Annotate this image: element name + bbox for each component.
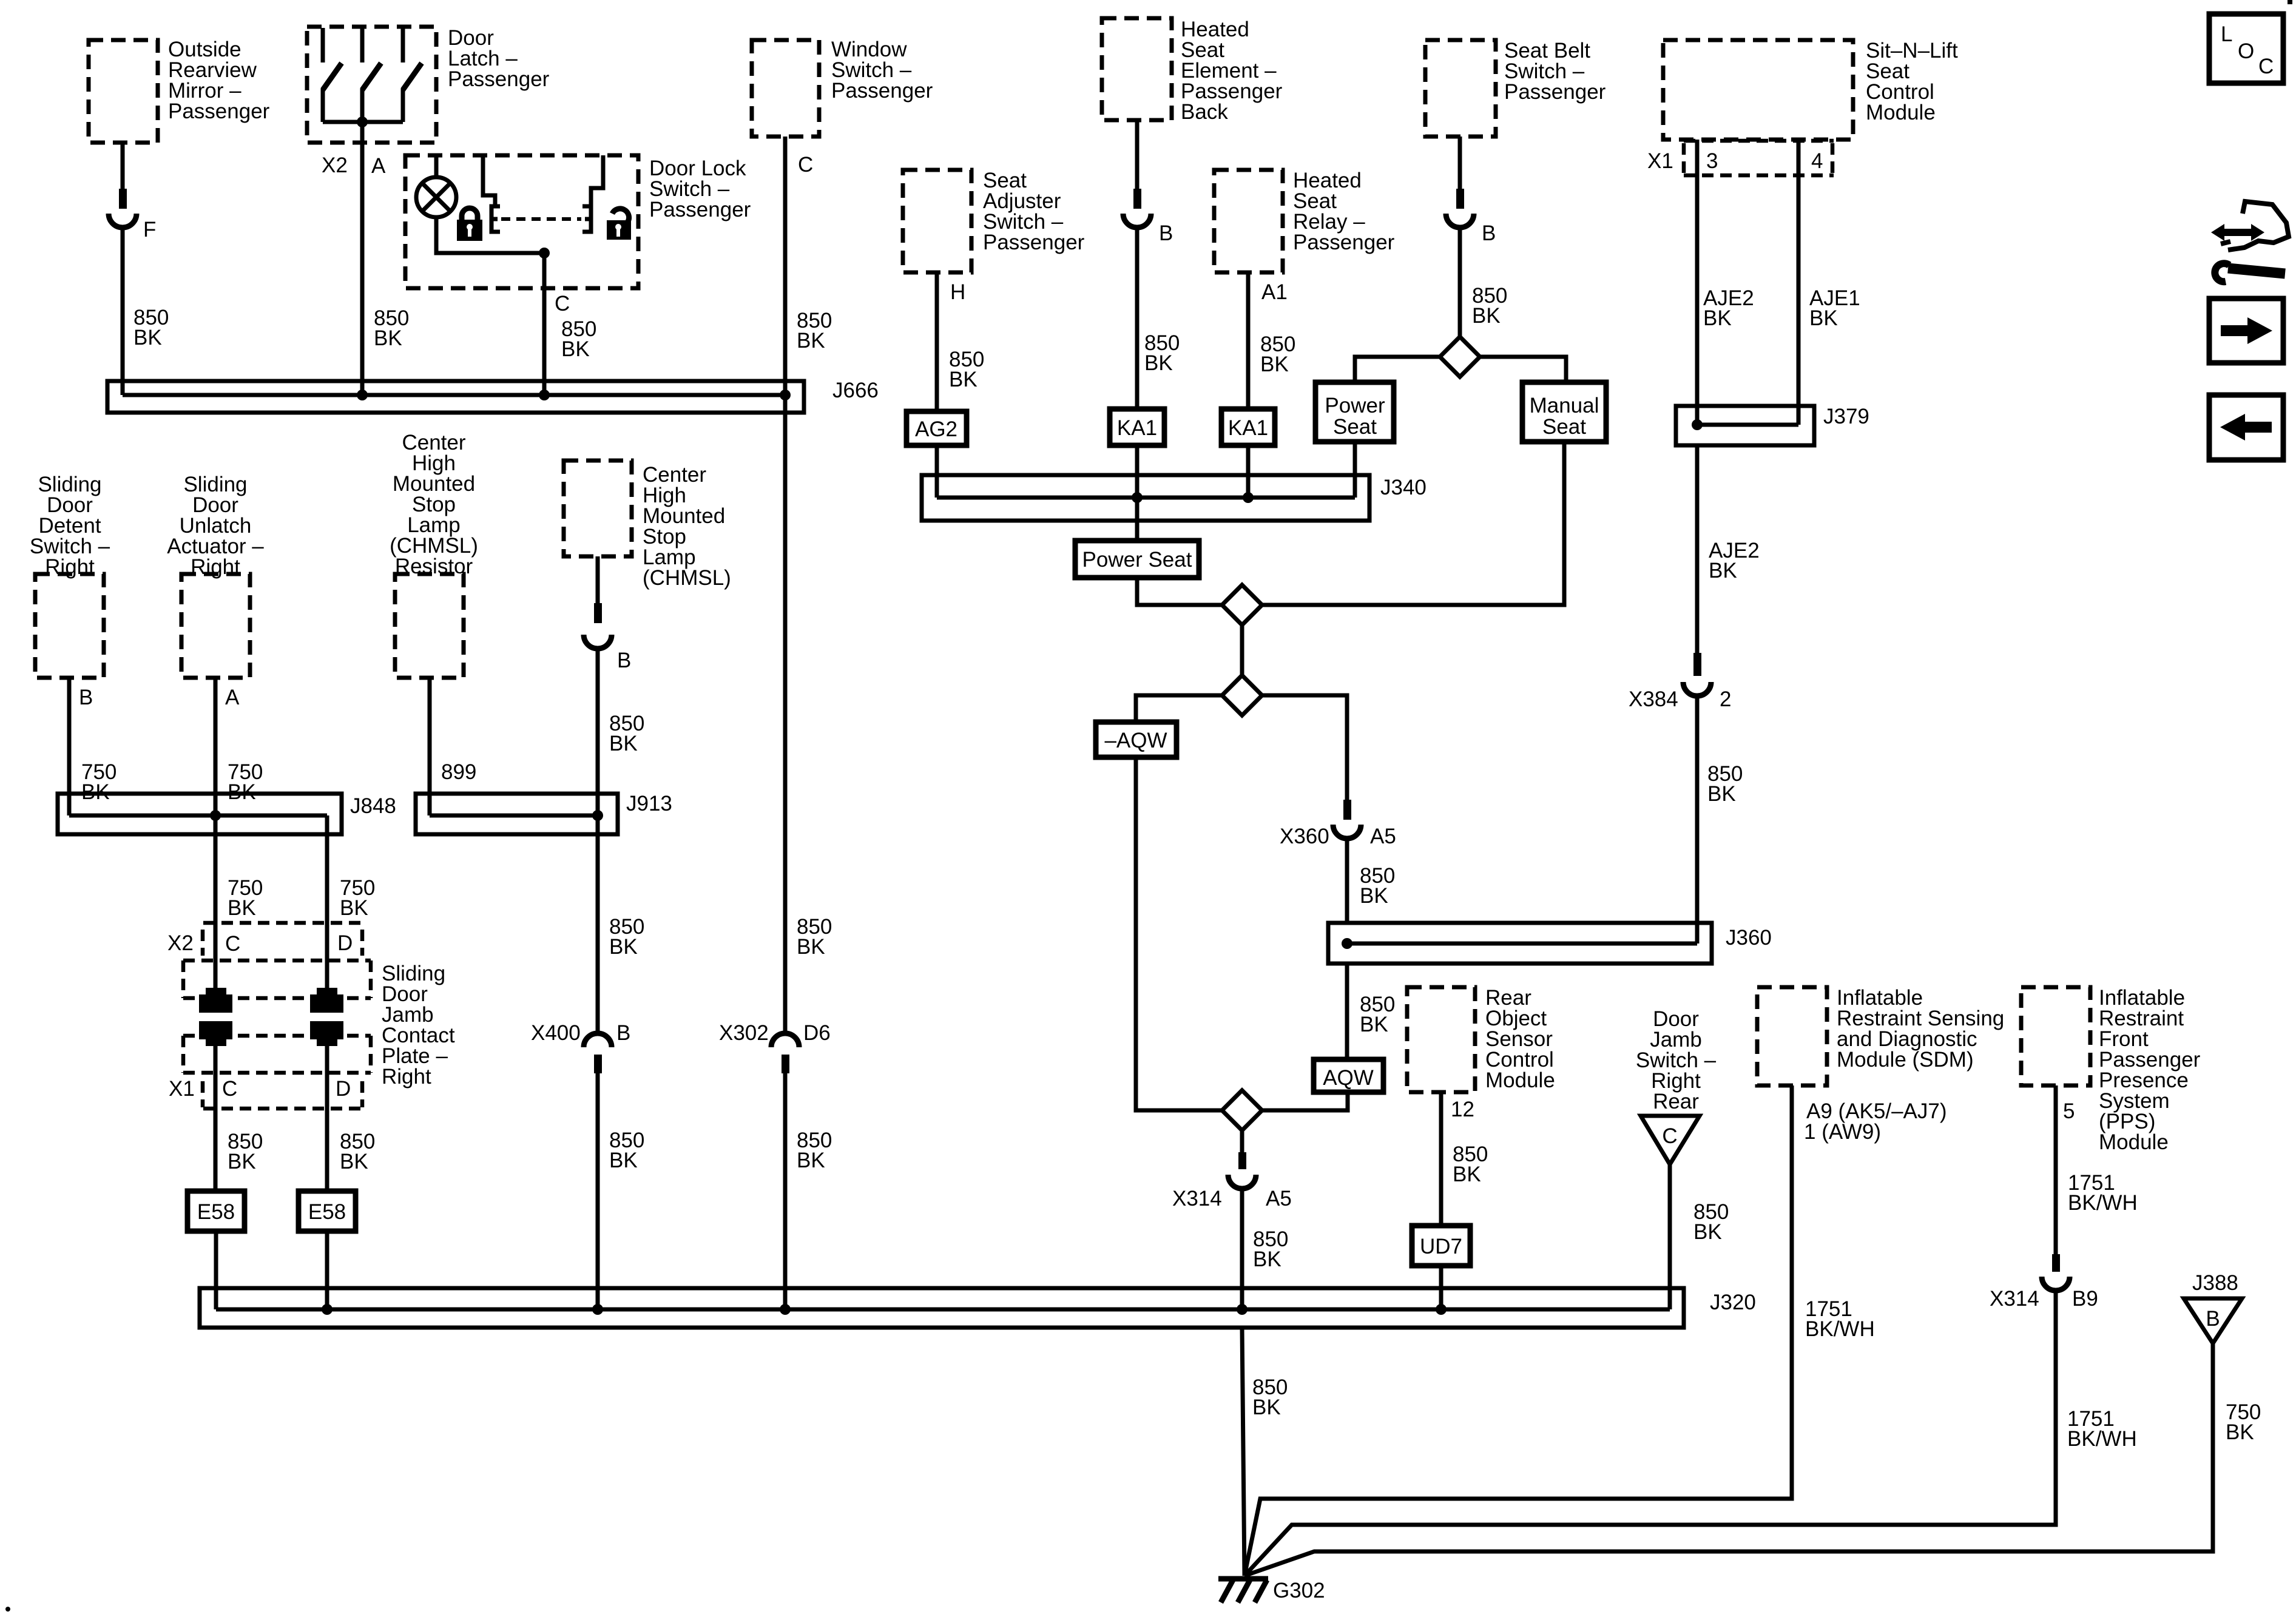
svg-text:Right: Right [382,1065,431,1089]
svg-text:Manual: Manual [1530,394,1599,417]
svg-text:BK: BK [1252,1396,1281,1419]
svg-text:X400: X400 [531,1021,581,1045]
sit-n-lift seat control module (component box) [1663,39,1958,140]
svg-text:X1: X1 [1647,149,1673,173]
svg-text:Module: Module [1485,1068,1555,1092]
junction in door latch [357,116,368,127]
svg-text:A: A [225,686,240,709]
wire: J388 to G302, 750 BK [1244,1343,2261,1576]
wire: -AQW box to splice diamond 3 [1136,757,1222,1110]
svg-text:BK: BK [949,368,977,391]
wire: heated seat relay to KA1 second, 850 BK [1248,272,1295,409]
svg-text:1 (AW9): 1 (AW9) [1804,1120,1881,1144]
wire: rear object module to UD7, 850 BK [1441,1092,1488,1226]
wire A: door latch to J666, 850 BK [362,122,409,395]
svg-text:Passenger: Passenger [168,100,270,123]
svg-text:BK: BK [609,935,638,959]
svg-text:X314: X314 [1990,1287,2039,1311]
svg-text:UD7: UD7 [1420,1235,1462,1258]
svg-text:X384: X384 [1629,687,1678,711]
svg-text:A: A [371,154,386,178]
connector B (chmsl) [584,603,631,672]
sliding door detent switch - right (component box) [30,473,110,678]
junction dot on J360 [1342,938,1352,949]
svg-text:F: F [143,218,156,241]
svg-text:B: B [616,1021,630,1045]
page dot bottom left [5,1607,10,1612]
sliding door jamb contact plate lower dashed box [183,1036,371,1073]
wire: heated seat element to connector B [1135,120,1140,190]
ground bus J666 [107,379,879,413]
linkage bracket E (left) [491,206,500,232]
svg-text:BK: BK [2226,1420,2254,1444]
svg-text:–AQW: –AQW [1104,729,1167,752]
svg-text:J320: J320 [1710,1291,1756,1314]
contact plate upper right [310,988,343,1013]
page speck top right [2288,0,2292,4]
svg-text:AQW: AQW [1323,1066,1374,1090]
seat belt switch - passenger (component box) [1425,39,1606,137]
svg-text:C: C [222,1077,237,1101]
wire: E58 left to J320 [214,1231,218,1309]
svg-text:BK: BK [609,732,638,755]
svg-text:BK: BK [340,896,368,920]
svg-text:A1: A1 [1261,280,1288,304]
junction dot on J848 [210,810,221,821]
svg-text:Passenger: Passenger [983,231,1085,254]
lamp symbol in door lock switch [416,155,456,217]
svg-text:B9: B9 [2072,1287,2098,1311]
door latch switch 3 [403,28,422,122]
svg-text:BK: BK [1253,1247,1281,1271]
sliding door jamb contact plate - right (label) [382,962,455,1089]
ground bus J360 [1328,923,1772,964]
svg-text:Passenger: Passenger [1504,80,1606,104]
door latch - passenger (component box) [307,26,550,143]
wire: X314 B9 to G302, 1751 BK/WH [1244,1289,2137,1576]
wire: connector B to KA1, 850 BK [1137,226,1180,409]
wire: chmsl to connector B [596,556,600,604]
svg-text:BK: BK [1360,1013,1388,1036]
svg-text:X360: X360 [1280,825,1329,848]
fuse KA1 (first) [1110,409,1164,445]
svg-text:B: B [1159,221,1173,245]
wire: mirror to connector F [121,143,125,190]
svg-text:C: C [2258,55,2274,78]
svg-text:Seat: Seat [1542,415,1586,439]
svg-text:BK: BK [1472,304,1501,328]
svg-text:12: 12 [1451,1098,1474,1121]
svg-text:BK: BK [228,1150,256,1173]
wire: chmsl B through J913 down to X400, 850 BK [598,647,644,1034]
wire: X384 to J360, 850 BK [1697,694,1743,944]
chmsl (component box) [564,461,731,590]
seat adjuster switch - passenger (component box) [903,169,1085,272]
wire: J360 to AQW option box, 850 BK [1347,964,1395,1059]
pin labels X2 A [322,154,386,178]
splice diamond (seat belt branch) [1440,337,1480,377]
wire: chmsl resistor to J913, 899 [430,678,476,815]
outside rearview mirror - passenger (component box) [89,38,270,143]
svg-text:C: C [798,153,813,177]
connector X400 B [531,1021,630,1073]
junction in door lock switch [539,248,550,258]
fuse KA1 (second) [1221,409,1275,445]
svg-text:BK: BK [1709,559,1737,582]
svg-text:E58: E58 [197,1200,235,1224]
junction dots on J320 [322,1304,1447,1315]
svg-text:Passenger: Passenger [649,198,751,221]
svg-text:J913: J913 [626,792,672,815]
junction dots on J666 [357,390,368,400]
connector X360 A5 [1280,800,1396,848]
svg-text:AG2: AG2 [915,417,957,441]
option box Power Seat [1315,382,1394,442]
svg-text:BK: BK [797,935,825,959]
contact plate lower left [199,1021,232,1046]
unlocked padlock icon [607,209,631,240]
ground G302 [1218,1579,1325,1602]
window switch - passenger (component box) [752,38,933,137]
wire: AQW box to splice diamond 3 [1262,1092,1348,1110]
svg-text:BK: BK [133,326,162,349]
svg-text:Back: Back [1181,100,1228,124]
door latch internal bus wire [323,120,403,124]
triangle connector C (door jamb switch) [1641,1116,1700,1164]
sliding door jamb contact plate upper dashed box [183,960,371,998]
wire: diamond to Power Seat option box [1355,357,1440,382]
svg-text:B: B [1482,221,1496,245]
svg-text:X302: X302 [719,1021,769,1045]
850 BK label above X302 [797,915,832,959]
option box AQW [1314,1059,1383,1092]
connector X314 B9 [1990,1254,2098,1311]
wire: J320 to G302, 850 BK [1242,1328,1288,1576]
svg-text:BK: BK [609,1149,638,1172]
wire: window switch circuit J666 to X302 [783,395,788,1034]
junction dot on J913 [592,810,603,821]
svg-text:O: O [2238,39,2254,63]
wire: pin 3 to J379, AJE2 BK [1697,140,1754,425]
connector B (seat belt switch) [1446,189,1496,245]
svg-text:J848: J848 [350,794,396,818]
svg-text:Power Seat: Power Seat [1082,548,1192,572]
750 BK label for contact plate C wire [228,876,263,920]
svg-text:BK: BK [561,337,590,361]
svg-text:BK/WH: BK/WH [2068,1191,2138,1215]
ground screw E58 (right) [299,1191,356,1231]
ground bus J340 [922,475,1427,521]
svg-text:Passenger: Passenger [831,79,933,103]
svg-text:D6: D6 [803,1021,831,1045]
inflatable restraint sensing and diagnostic module SDM (component box) [1757,986,2004,1085]
svg-text:J379: J379 [1823,405,1869,428]
wire: diamond 1 to diamond 2 [1240,625,1244,675]
splice diamond 2 [1222,675,1262,715]
ground screw E58 (left) [187,1191,245,1231]
svg-text:BK/WH: BK/WH [1805,1317,1875,1341]
svg-text:Module: Module [2099,1130,2169,1154]
wire: connector F to J666, 850 BK [123,226,169,395]
LOC legend box [2209,14,2283,83]
dashed mechanical link [501,217,581,221]
wire: seat adjuster to AG2, 850 BK [937,272,984,411]
connector X384 2 [1629,653,1731,711]
svg-text:X1: X1 [169,1077,195,1101]
wire: X400 to J320, 850 BK [598,1073,644,1309]
wire: diamond to Manual Seat option box [1480,357,1566,382]
wire: window switch down through J666 to X302, 850 BK [785,137,832,395]
svg-text:Module: Module [1866,101,1936,124]
option box Power Seat (second) [1075,541,1199,578]
svg-text:BK: BK [228,896,256,920]
ground bus J913 [416,792,672,834]
svg-text:X2: X2 [322,154,348,177]
svg-text:899: 899 [441,760,476,784]
svg-text:3: 3 [1706,149,1718,173]
svg-text:BK: BK [1260,353,1289,376]
wire: X302 to J320, 850 BK [785,1073,832,1309]
wire: door jamb switch to J320, 850 BK [1670,1164,1729,1309]
connector X2 row (sliding door jamb) [167,923,362,956]
chmsl resistor (component box) [390,431,478,678]
fuse UD7 [1412,1226,1470,1266]
sit-n-lift X1 pin header (dashed) [1684,141,1834,175]
rear object sensor control module (component box) [1407,986,1555,1092]
svg-text:BK: BK [797,1149,825,1172]
inflatable restraint front passenger presence system PPS module (component box) [2021,986,2201,1154]
door latch switch 1 [323,28,342,122]
svg-text:BK: BK [797,329,825,353]
svg-text:B: B [617,649,631,672]
svg-text:A5: A5 [1370,825,1396,848]
wire: Manual Seat option box down to splice diamond 1 [1262,442,1564,605]
door latch switch 2 [362,28,381,122]
wire: contact plate D to E58, 850 BK [327,1046,375,1191]
splice diamond 1 [1222,585,1262,625]
junction dots on J340 [1132,492,1143,503]
fuse AG2 [907,411,967,445]
svg-text:J388: J388 [2192,1271,2238,1295]
wire C: door lock switch to J666, 850 BK [544,253,596,395]
arrow box (left) [2209,395,2283,460]
svg-text:(CHMSL): (CHMSL) [643,566,731,590]
svg-text:Passenger: Passenger [1293,231,1395,254]
svg-text:KA1: KA1 [1117,416,1157,440]
svg-text:BK: BK [1703,306,1732,330]
ground bus J379 [1676,405,1869,445]
option box -AQW [1096,722,1177,757]
option box Manual Seat [1522,382,1606,442]
svg-text:Power: Power [1325,394,1385,417]
svg-text:Rear: Rear [1653,1090,1699,1113]
wire: J848 to contact plate D, 750 BK [327,815,375,993]
heated seat element - passenger back (component box) [1102,18,1283,124]
svg-text:H: H [950,280,965,304]
wire: E58 right to J320 [325,1231,329,1309]
svg-text:BK/WH: BK/WH [2067,1427,2137,1451]
linkage bracket (right) [582,206,591,232]
svg-text:G302: G302 [1273,1579,1325,1602]
wire: KA1 second into J340 [1246,445,1251,498]
svg-text:L: L [2221,22,2232,46]
arrow box (right) [2209,299,2283,363]
svg-text:BK: BK [1144,351,1173,375]
wire: seat belt switch to connector B [1458,137,1462,190]
contact plate lower right [310,1021,343,1046]
wire: X360 to J360, 850 BK [1347,837,1395,923]
ground bus J320 [200,1288,1756,1328]
heated seat relay - passenger (component box) [1214,169,1395,272]
door lock switch left linkage step [483,155,495,206]
door lock switch - passenger (component box) [405,155,751,288]
wire: AG2 into J340 [935,445,939,498]
svg-text:X2: X2 [167,931,194,955]
door lock internal wire from lamp to output [436,217,544,253]
connector X1 row (sliding door jamb) [169,1077,362,1109]
wire: detent switch to J848, 750 BK [69,678,116,815]
svg-text:C: C [555,292,570,316]
svg-text:KA1: KA1 [1228,416,1268,440]
svg-text:J340: J340 [1380,476,1427,499]
svg-text:BK: BK [340,1150,368,1173]
wire: contact plate C to E58, 850 BK [215,1046,263,1191]
svg-text:BK: BK [374,326,402,350]
connector B (heated seat element) [1123,189,1173,245]
svg-text:BK: BK [1693,1220,1722,1244]
pin label A9 (AK5/-AJ7) 1 (AW9) [1804,1099,1947,1144]
svg-text:D: D [337,931,353,955]
wire: diamond 3 to connector X314 [1240,1130,1244,1153]
connector X302 D6 [719,1021,831,1073]
wire: diamond 2 right arm to X360 [1262,695,1347,800]
wire: unlatch actuator through J848 to contact plate, 750 BK [215,678,263,993]
svg-text:X314: X314 [1172,1187,1222,1210]
junction dot on J379 [1692,419,1703,430]
wire: J379 to X384, AJE2 BK [1697,445,1760,654]
svg-text:Module (SDM): Module (SDM) [1837,1048,1974,1072]
svg-text:E58: E58 [308,1200,346,1224]
door jamb switch - right rear (label) [1636,1007,1717,1113]
svg-text:4: 4 [1811,149,1823,173]
wire: diamond 2 to -AQW option box [1136,695,1222,722]
svg-text:BK: BK [1453,1163,1481,1186]
connector F (in-line connector) [109,189,156,241]
svg-text:B: B [79,686,93,709]
sliding door unlatch actuator - right (component box) [167,473,264,678]
svg-text:A5: A5 [1266,1187,1292,1210]
wire: KA1 through J340 to Power Seat box [1135,445,1140,541]
wire: connector B to splice diamond, 850 BK [1460,226,1507,338]
wire: PPS module to X314, 1751 BK/WH [2056,1085,2138,1255]
svg-text:C: C [225,932,240,956]
svg-text:BK: BK [1809,306,1838,330]
locked padlock icon [457,208,482,241]
wire: Power Seat box to splice diamond 1 [1137,578,1222,605]
wire: pin 4 to J379, AJE1 BK [1798,140,1860,425]
svg-text:B: B [2206,1307,2220,1331]
svg-text:Seat: Seat [1333,415,1377,439]
svg-text:J666: J666 [832,379,879,402]
svg-text:BK: BK [1707,782,1736,806]
wire: X314 A5 to J320, 850 BK [1242,1187,1288,1309]
svg-text:BK: BK [1360,884,1388,908]
contact plate upper left [199,988,232,1013]
svg-text:D: D [336,1077,351,1101]
svg-text:2: 2 [1720,687,1731,711]
splice diamond 3 [1222,1090,1262,1130]
svg-text:5: 5 [2063,1099,2075,1123]
ground bus J848 [58,794,396,834]
svg-text:J360: J360 [1726,926,1772,950]
svg-text:C: C [1662,1124,1677,1148]
adjustable component icon (hand outline with double arrow and wrench) [2211,201,2289,282]
triangle connector J388 B [2184,1271,2242,1343]
svg-text:Passenger: Passenger [448,67,550,91]
door lock switch right linkage step [591,155,603,206]
wire: SDM to G302, 1751 BK/WH [1244,1085,1875,1576]
wire: Power Seat option box into J340 [1353,442,1357,498]
pin labels X1 3 4 [1647,149,1823,173]
wire: UD7 to J320 [1439,1266,1443,1309]
connector X314 A5 [1172,1152,1292,1210]
